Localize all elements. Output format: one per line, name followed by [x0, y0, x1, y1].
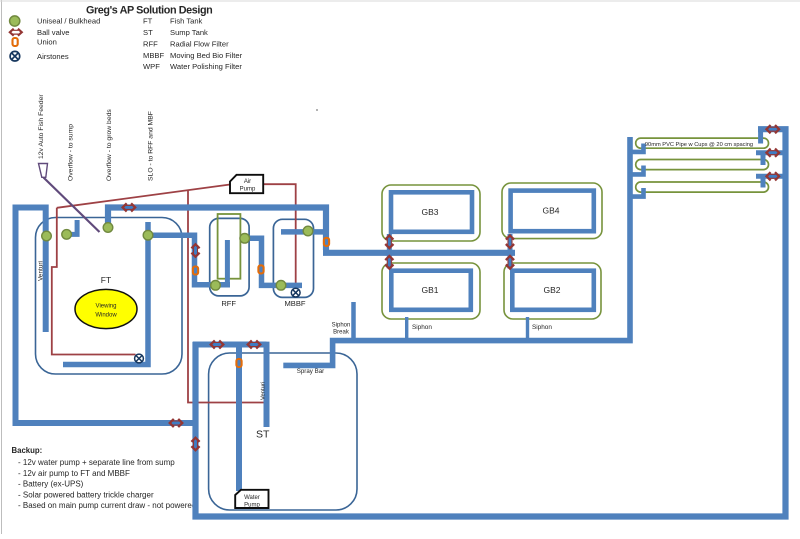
ball valve on SLO drop to RFF (vertical) — [191, 244, 199, 257]
ball valve NFT pipe1 — [767, 125, 780, 133]
svg-text:Greg's AP Solution Design: Greg's AP Solution Design — [86, 5, 212, 17]
svg-text:90mm PVC Pipe w Cups @ 20 cm s: 90mm PVC Pipe w Cups @ 20 cm spacing — [645, 142, 753, 148]
svg-text:GB1: GB1 — [421, 285, 438, 295]
svg-text:- 12v water pump + separate l: - 12v water pump + separate line from su… — [18, 458, 175, 467]
backup notes block — [12, 446, 197, 510]
wire: NFT pipe1 feed drop — [758, 129, 763, 143]
svg-text:Break: Break — [333, 330, 350, 336]
slide border top — [0, 0, 800, 2]
svg-text:Pump: Pump — [244, 503, 260, 509]
svg-text:Siphon: Siphon — [332, 323, 351, 329]
svg-text:Union: Union — [37, 38, 57, 47]
air line from air pump right port to MBBF airstone — [263, 184, 296, 289]
svg-text:Water: Water — [244, 495, 260, 501]
sump tank ST outline — [209, 353, 357, 510]
wire: FT overflow-to-sump standpipe elbow — [64, 220, 77, 234]
svg-text:Sump Tank: Sump Tank — [170, 28, 208, 37]
svg-text:ST: ST — [256, 429, 270, 441]
wire: NFT pipe1 left drain stub — [628, 144, 644, 152]
wire: MBBF top outlet to GB feed riser — [281, 229, 327, 235]
union on GB feed riser — [324, 238, 329, 246]
ball valve pump header left — [211, 340, 224, 348]
wire: GB4/GB2 valve column — [508, 234, 513, 269]
svg-text:Radial Flow Filter: Radial Flow Filter — [170, 39, 229, 48]
NFT pipe 3 green outline — [636, 182, 769, 192]
viewing window ellipse in FT — [75, 289, 137, 328]
wire: grow bed manifold — [323, 250, 515, 256]
uniseal RFF bottom inlet — [211, 281, 221, 291]
union on pump riser — [236, 359, 241, 367]
stray mark dot — [316, 109, 318, 111]
svg-text:- Battery (ex-UPS): - Battery (ex-UPS) — [18, 480, 84, 489]
svg-text:Ball valve: Ball valve — [37, 28, 70, 37]
wire: NFT pipe2 left drain stub — [628, 166, 644, 175]
svg-text:WPF: WPF — [143, 62, 160, 71]
svg-text:GB3: GB3 — [421, 207, 438, 217]
12v auto fish feeder funnel — [39, 164, 48, 178]
legend union symbol — [13, 38, 18, 46]
ball valve below pump tee (vertical) — [191, 438, 199, 451]
wire: SLO exit line down to RFF inlet — [146, 235, 230, 285]
wire: RFF outlet to MBBF inlet — [245, 238, 302, 285]
uniseal on FT feed venturi pipe — [42, 231, 52, 241]
grow bed GB4 blue pipe rim — [511, 191, 594, 232]
svg-text:MBBF: MBBF — [284, 299, 305, 308]
wire: pump tee header above sump — [193, 342, 267, 348]
svg-text:Overflow - to sump: Overflow - to sump — [68, 124, 75, 181]
svg-text:RFF: RFF — [221, 299, 236, 308]
uniseal on FT overflow-to-sump — [62, 230, 72, 240]
grow bed GB4 green tub — [502, 183, 602, 239]
svg-text:Air: Air — [244, 179, 251, 185]
wire: venturi return drop into ST — [264, 342, 270, 427]
airstone in MBBF — [291, 288, 300, 297]
uniseal MBBF bottom inlet — [276, 281, 286, 291]
svg-text:Siphon: Siphon — [412, 324, 432, 331]
wire: FT SLO internal standpipe — [63, 222, 148, 365]
slide border left — [1, 0, 3, 534]
water pump box — [235, 490, 268, 508]
svg-text:- 12v air pump to FT and MBBF: - 12v air pump to FT and MBBF — [18, 469, 130, 478]
air pump box — [230, 175, 263, 193]
legend airstone symbol — [10, 51, 20, 61]
svg-text:12v Auto Fish Feeder: 12v Auto Fish Feeder — [38, 94, 45, 159]
wire: siphon break vent stub — [351, 302, 356, 338]
svg-text:Water Polishing Filter: Water Polishing Filter — [170, 62, 242, 71]
grow bed GB3 green tub — [382, 185, 480, 241]
uniseal MBBF top outlet — [303, 226, 313, 236]
wire: left main pipe (sump to FT feed, with venturi drop into FT) — [16, 208, 197, 424]
wire: NFT pipe2 feed connector — [756, 153, 786, 165]
svg-text:Venturi: Venturi — [261, 382, 267, 400]
air line branch down to sump venturi — [188, 190, 267, 402]
wire: GB1 siphon drain — [405, 317, 408, 339]
svg-text:Pump: Pump — [240, 187, 256, 193]
grow bed GB1 green tub — [382, 263, 480, 319]
ball valve on FT feed line — [170, 419, 183, 427]
ball valve NFT pipe3 — [767, 172, 780, 180]
wire: RFF internal riser — [225, 240, 230, 284]
svg-text:MBBF: MBBF — [143, 51, 164, 60]
grow bed GB3 blue pipe rim — [391, 192, 472, 232]
svg-text:RFF: RFF — [143, 39, 158, 48]
grow bed GB1 blue pipe rim — [391, 271, 471, 310]
svg-text:GB2: GB2 — [543, 285, 560, 295]
svg-text:FT: FT — [143, 17, 153, 26]
svg-text:Overflow - to grow beds: Overflow - to grow beds — [106, 109, 113, 181]
wire: NFT pipe3 left drain stub — [628, 188, 644, 197]
svg-text:Window: Window — [95, 313, 117, 319]
svg-text:Viewing: Viewing — [96, 304, 117, 310]
union on RFF-MBBF drop — [258, 265, 263, 273]
wire: water pump riser — [236, 344, 242, 491]
NFT pipe 2 green outline — [636, 160, 769, 170]
air line down into FT to airstone — [52, 208, 136, 355]
svg-text:- Based on main pump current: - Based on main pump current draw - not … — [18, 501, 196, 510]
svg-text:Uniseal / Bulkhead: Uniseal / Bulkhead — [37, 17, 100, 26]
wire: GB2 siphon drain — [526, 317, 529, 339]
ball valve pump header right — [248, 340, 261, 348]
svg-text:Fish Tank: Fish Tank — [170, 17, 203, 26]
svg-text:Backup:: Backup: — [12, 446, 43, 455]
NFT pipe 1 (90mm PVC) green outline — [636, 138, 769, 148]
svg-text:ST: ST — [143, 28, 153, 37]
12v fish feeder drop line (purple) — [44, 178, 100, 233]
legend uniseal symbol — [10, 16, 20, 26]
wire: GB drain manifold, spray bar and NFT drain main — [283, 137, 630, 365]
svg-text:Venturi: Venturi — [38, 261, 45, 281]
fish tank FT outline — [36, 218, 183, 375]
legend ball valve symbol — [10, 29, 22, 36]
ball valve GB1 (vertical) — [385, 256, 393, 269]
ball valve GB4 (vertical) — [506, 236, 514, 249]
svg-text:Airstones: Airstones — [37, 52, 69, 61]
svg-text:FT: FT — [101, 275, 111, 285]
grow bed GB2 green tub — [504, 263, 601, 319]
wire: FT overflow main to grow bed manifold — [108, 208, 326, 251]
wire: NFT pipe3 feed connector — [756, 176, 786, 187]
airstone in FT — [135, 354, 144, 363]
ball valve on FT overflow main — [123, 203, 136, 211]
ball valve NFT pipe2 — [767, 149, 780, 157]
svg-text:Moving Bed Bio Filter: Moving Bed Bio Filter — [170, 51, 243, 60]
ball valve GB2 (vertical) — [506, 256, 514, 269]
RFF green insert rectangle — [218, 214, 241, 279]
ball valve GB3 (vertical) — [385, 236, 393, 249]
air line from air pump left port diagonal — [57, 185, 230, 208]
svg-text:Siphon: Siphon — [532, 324, 552, 331]
wire: pump discharge down-leg, bottom main and right riser to NFT top — [196, 129, 786, 516]
svg-text:Spray Bar: Spray Bar — [297, 368, 325, 375]
svg-text:GB4: GB4 — [542, 206, 559, 216]
uniseal on FT overflow-to-growbeds — [103, 223, 113, 233]
svg-text:- Solar powered battery trick: - Solar powered battery trickle charger — [18, 490, 154, 499]
svg-text:SLO - to RFF and MBF: SLO - to RFF and MBF — [148, 111, 155, 181]
moving bed bio filter MBBF outline — [273, 219, 313, 297]
union on SLO drop — [193, 267, 198, 275]
radial flow filter RFF outline — [210, 218, 249, 296]
wire: GB3/GB1 valve column — [387, 234, 392, 269]
uniseal RFF right outlet — [240, 234, 250, 244]
grow bed GB2 blue pipe rim — [512, 271, 594, 310]
uniseal on FT SLO standpipe — [143, 230, 153, 240]
